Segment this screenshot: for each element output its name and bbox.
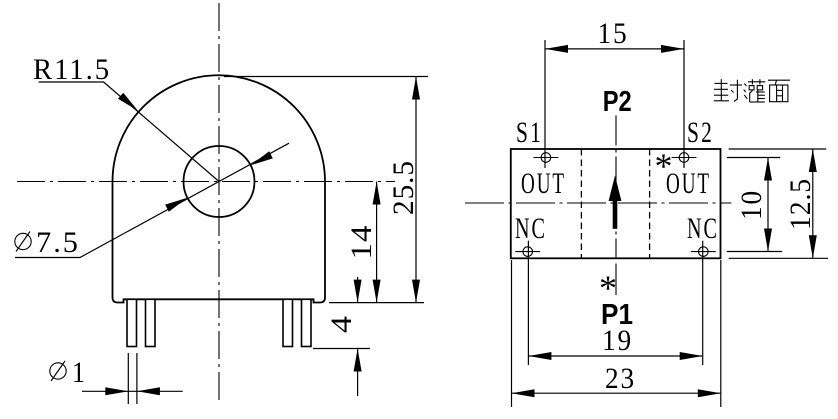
dimension 10 extension lines bbox=[727, 157, 781, 159]
pin 3 bbox=[283, 299, 293, 346]
char feng (seal) bbox=[714, 79, 742, 101]
diameter 7.5 lower arrowhead bbox=[165, 198, 187, 212]
svg-text:S2: S2 bbox=[687, 116, 714, 149]
center hole circle bbox=[184, 146, 255, 217]
svg-text:15: 15 bbox=[598, 17, 629, 50]
diameter 7.5 label bbox=[15, 226, 80, 259]
R11.5 arrowhead bbox=[118, 93, 138, 111]
dimension 15 extension lines bbox=[544, 40, 546, 168]
vertical centerline of left view bbox=[218, 3, 220, 405]
svg-text:4: 4 bbox=[325, 315, 358, 333]
svg-text:7.5: 7.5 bbox=[36, 226, 80, 259]
diameter 1 dimension line bbox=[82, 390, 183, 392]
body rectangle bbox=[511, 149, 721, 258]
svg-text:19: 19 bbox=[602, 324, 633, 357]
bottom extension line (25.5 / 14 / 4) bbox=[329, 302, 424, 304]
diameter 7.5 leader line bbox=[15, 143, 289, 257]
pin NC left bbox=[515, 247, 540, 257]
dimension 12.5 extension lines bbox=[729, 148, 827, 150]
svg-text:NC: NC bbox=[687, 212, 719, 245]
pin bottom extension line (4) bbox=[313, 348, 370, 350]
dimension 4 lower arrow bbox=[357, 349, 359, 397]
pin NC right bbox=[691, 247, 716, 257]
dimension 15 line bbox=[545, 48, 684, 50]
dimension 25.5 line bbox=[415, 77, 417, 303]
vertical centerline of right view bbox=[615, 116, 617, 259]
pin S2 bbox=[672, 153, 697, 163]
svg-text:25.5: 25.5 bbox=[387, 160, 420, 215]
svg-text:R11.5: R11.5 bbox=[33, 53, 111, 86]
dimension 19 line bbox=[528, 355, 702, 357]
top extension line (25.5) bbox=[224, 76, 428, 78]
thick direction arrow P1->P2 bbox=[609, 176, 622, 229]
svg-text:14: 14 bbox=[345, 225, 378, 260]
pin 2 bbox=[146, 299, 156, 346]
pin S1 bbox=[534, 153, 559, 163]
hidden hole line right bbox=[649, 149, 651, 258]
pin 4 bbox=[302, 299, 312, 346]
svg-text:*: * bbox=[655, 146, 673, 186]
hidden hole line left bbox=[580, 149, 582, 258]
svg-text:OUT: OUT bbox=[666, 167, 711, 200]
dimension 12.5 line bbox=[812, 149, 814, 258]
svg-text:NC: NC bbox=[515, 212, 547, 245]
svg-text:*: * bbox=[599, 268, 617, 308]
char guan (pour) bbox=[744, 79, 766, 102]
transformer body outline bbox=[113, 75, 326, 302]
svg-text:10: 10 bbox=[735, 189, 768, 220]
pin 1 bbox=[127, 299, 137, 346]
dimension 4 upper arrow bbox=[357, 277, 359, 303]
dimension 14 line bbox=[376, 182, 378, 303]
diameter 1 extension lines bbox=[127, 353, 129, 404]
diameter 1 label bbox=[50, 356, 85, 389]
potting surface label (Chinese: feng guan mian) bbox=[714, 79, 790, 102]
dimension 23 extension lines bbox=[511, 260, 513, 407]
diameter 7.5 upper arrowhead bbox=[251, 151, 273, 165]
svg-text:1: 1 bbox=[72, 356, 85, 389]
char mian (surface) bbox=[768, 80, 790, 102]
dimension 10 line bbox=[767, 158, 769, 252]
svg-text:P2: P2 bbox=[603, 86, 632, 118]
svg-text:23: 23 bbox=[605, 362, 636, 395]
horizontal centerline of left view bbox=[17, 181, 395, 183]
svg-text:12.5: 12.5 bbox=[784, 178, 817, 230]
dimension 23 line bbox=[512, 392, 721, 394]
horizontal centerline of right view bbox=[465, 202, 732, 204]
svg-text:OUT: OUT bbox=[521, 167, 566, 200]
R11.5 leader line bbox=[39, 82, 219, 182]
dimension 19 extension lines bbox=[527, 241, 529, 365]
svg-text:S1: S1 bbox=[516, 116, 543, 149]
